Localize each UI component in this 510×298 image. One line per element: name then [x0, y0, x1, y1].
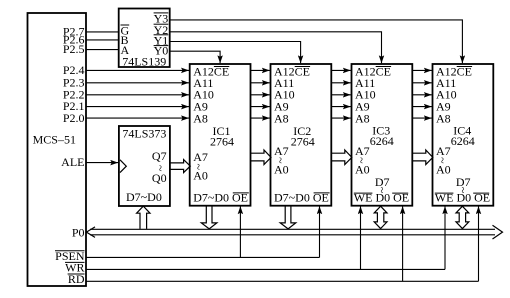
74LS373 box	[119, 126, 170, 206]
svg-text:P0: P0	[72, 225, 85, 239]
bus arrow 373 Q7~Q0 to IC1 A7~A0	[170, 160, 190, 173]
wire IC2 A8 to IC3 A8	[331, 117, 351, 119]
bus arrow left into MCS-51 P0	[86, 227, 95, 238]
wire PSEN branch to IC1 OE	[239, 206, 241, 257]
svg-text:74LS373: 74LS373	[122, 127, 166, 141]
wire IC1 A8 to IC2 A8	[251, 117, 270, 119]
wire P2.7 to G	[86, 31, 119, 33]
svg-text:2764: 2764	[210, 134, 234, 148]
svg-text:P2.0: P2.0	[63, 111, 85, 125]
bus arrow IC3 data bidirectional	[374, 206, 387, 228]
P0 bus	[86, 225, 502, 239]
svg-text:A: A	[121, 43, 130, 57]
svg-text:A0: A0	[355, 162, 370, 176]
wire P2.0 to IC1 A8	[86, 117, 189, 119]
wire P2.4 to IC1 A12	[86, 69, 189, 71]
wire P2.3 to IC1 A11	[86, 82, 189, 84]
wire IC2 A10 to IC3 A10	[331, 94, 351, 96]
svg-text:A0: A0	[274, 162, 289, 176]
bus arrow IC2 to IC3 address	[332, 150, 352, 165]
wire RD line	[86, 280, 479, 282]
MCS-51 box	[28, 13, 87, 286]
bus arrow IC1 data down to P0	[201, 206, 217, 229]
wire PSEN line	[86, 256, 320, 258]
74LS139 box	[119, 9, 170, 68]
svg-text:6264: 6264	[451, 134, 475, 148]
bus arrow IC4 data bidirectional	[456, 206, 469, 228]
bus arrow right	[493, 225, 503, 239]
svg-text:A7: A7	[355, 144, 370, 158]
svg-text:ALE: ALE	[61, 155, 84, 169]
wire IC3 A8 to IC4 A8	[412, 117, 432, 119]
wire WR branch to IC4 WE	[444, 206, 446, 269]
wire RD branch to IC4 OE	[478, 206, 480, 281]
wire IC3 A10 to IC4 A10	[412, 94, 432, 96]
wire IC2 A12 to IC3 A12	[331, 69, 351, 71]
wire P2.2 to IC1 A10	[86, 94, 189, 96]
svg-text:2764: 2764	[291, 134, 315, 148]
svg-text:P2.5: P2.5	[63, 42, 85, 56]
wire IC1 A12 to IC2 A12	[251, 69, 270, 71]
wire Y0 to IC1 CE	[170, 51, 220, 63]
svg-text:A8: A8	[193, 111, 208, 125]
svg-text:A7: A7	[274, 144, 289, 158]
wire IC1 A11 to IC2 A11	[251, 82, 270, 84]
wire P2.1 to IC1 A9	[86, 106, 189, 108]
wire IC3 A9 to IC4 A9	[412, 106, 432, 108]
bus arrow IC3 to IC4 address	[413, 150, 433, 165]
svg-text:A7: A7	[436, 144, 451, 158]
clock wedge on 373	[120, 160, 126, 173]
wire WR branch to IC3 WE	[360, 206, 362, 269]
IC3 box	[352, 64, 413, 206]
svg-text:A8: A8	[436, 111, 451, 125]
wire PSEN branch to IC2 OE	[319, 206, 321, 257]
svg-text:A7: A7	[193, 150, 208, 164]
bus arrow IC2 data down to P0	[280, 206, 296, 229]
svg-text:Q7: Q7	[152, 149, 167, 163]
bus arrow IC1 to IC2 address	[251, 150, 271, 165]
svg-text:A8: A8	[274, 111, 289, 125]
wire WR line	[86, 268, 445, 270]
svg-text:MCS–51: MCS–51	[33, 133, 76, 147]
svg-text:A0: A0	[193, 168, 208, 182]
wire IC3 A12 to IC4 A12	[412, 69, 432, 71]
wire Y3 to IC4 CE	[170, 20, 463, 63]
wire P2.6 to B	[86, 39, 119, 41]
wire P2.5 to A	[86, 49, 119, 51]
svg-text:D7~D0: D7~D0	[126, 190, 162, 204]
wire IC2 A11 to IC3 A11	[331, 82, 351, 84]
IC2 box	[271, 64, 332, 206]
svg-text:A0: A0	[436, 162, 451, 176]
IC4 box	[433, 64, 494, 206]
wire IC1 A9 to IC2 A9	[251, 106, 270, 108]
wire ALE to 373 clock	[86, 162, 118, 164]
wire IC3 A11 to IC4 A11	[412, 82, 432, 84]
wire IC2 A9 to IC3 A9	[331, 106, 351, 108]
bus arrow P0 to 74LS373 (data up)	[137, 206, 150, 229]
svg-text:A8: A8	[355, 111, 370, 125]
wire Y1 to IC2 CE	[170, 42, 301, 64]
svg-text:6264: 6264	[370, 134, 394, 148]
wire RD branch to IC3 OE	[402, 206, 404, 281]
wire Y2 to IC3 CE	[170, 32, 382, 64]
IC1 box	[190, 64, 251, 206]
wire IC1 A10 to IC2 A10	[251, 94, 270, 96]
svg-text:Q0: Q0	[152, 171, 167, 185]
